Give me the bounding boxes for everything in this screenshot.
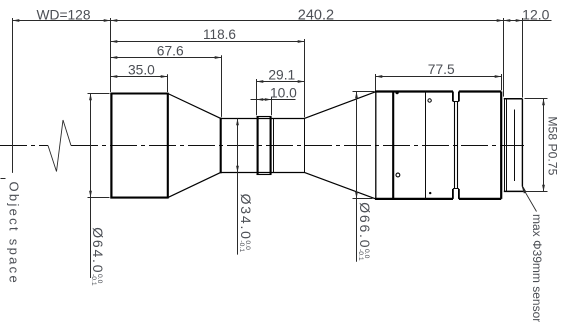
label Object space [7,182,22,285]
waist ⌀34 [220,118,222,174]
svg-text:240.2: 240.2 [298,7,334,23]
svg-text:WD=128: WD=128 [36,7,90,22]
svg-text:-0.1: -0.1 [238,240,245,252]
rear section D ⌀66 [459,90,501,92]
svg-text:-0.1: -0.1 [357,249,364,261]
expanding cone [304,92,375,119]
diameter dimension ⌀34 [237,119,239,255]
main horizontal dimension line (WD / 240.2 / 12.0) [13,20,552,22]
svg-text:12.0: 12.0 [522,6,549,22]
label ⌀34.0 0.0/-0.1 [238,194,254,253]
dimension 35.0 [111,76,168,78]
svg-text:35.0: 35.0 [128,63,155,78]
raised ring on waist (10.0 wide) [257,116,259,174]
svg-text:M58 P0.75: M58 P0.75 [546,116,560,175]
converging cone [168,94,221,119]
sensor leader line [523,188,537,211]
svg-text:Ø66.0: Ø66.0 [357,202,373,249]
set screw circle (section C top) [428,99,431,102]
svg-text:67.6: 67.6 [157,44,184,59]
dimension 77.5 [376,76,502,78]
break zigzag (object plane) [48,120,71,172]
M58 mount section [504,98,523,100]
groove between barrel sections C and D [452,92,454,102]
svg-text:29.1: 29.1 [268,67,295,82]
diameter dimension ⌀64 [88,93,110,95]
label ⌀66.0 0.0/-0.1 [357,202,373,261]
front cylinder ⌀64 [110,93,112,199]
svg-text:max Φ39mm sensor: max Φ39mm sensor [530,214,544,322]
label max ⌀39mm sensor [530,214,544,322]
svg-text:Object space: Object space [7,182,22,285]
svg-text:77.5: 77.5 [428,62,455,77]
M58 thread dimension [525,98,548,100]
rear glass element [514,110,516,182]
label ⌀64.0 0.0/-0.1 [90,227,106,286]
dimension 67.6 [111,57,222,59]
dimension 29.1 [257,81,305,83]
barrel joint B|C [425,92,427,199]
rear face with chamfer [521,99,523,187]
svg-text:-0.1: -0.1 [90,274,97,286]
svg-text:Ø34.0: Ø34.0 [238,194,254,241]
svg-text:118.6: 118.6 [203,27,236,42]
diameter dimension ⌀66 [353,91,375,93]
main barrel ⌀66 [375,92,377,199]
svg-text:10.0: 10.0 [270,86,297,101]
set screw circle (section B bottom) [396,173,400,177]
centerline (optical axis) [0,145,48,147]
extension lines [12,18,14,173]
object space tick [1,178,6,180]
svg-text:Ø64.0: Ø64.0 [90,227,106,274]
dimension 10.0 [251,99,296,101]
set screw dot (top, section B) [395,93,398,95]
dimension 118.6 [111,41,305,43]
barrel joint A|B [392,92,394,199]
set screw dot (section C bottom) [429,192,431,194]
waist joint line [273,119,275,173]
waist end joint [304,119,306,173]
label M58 P0.75 [546,116,560,175]
